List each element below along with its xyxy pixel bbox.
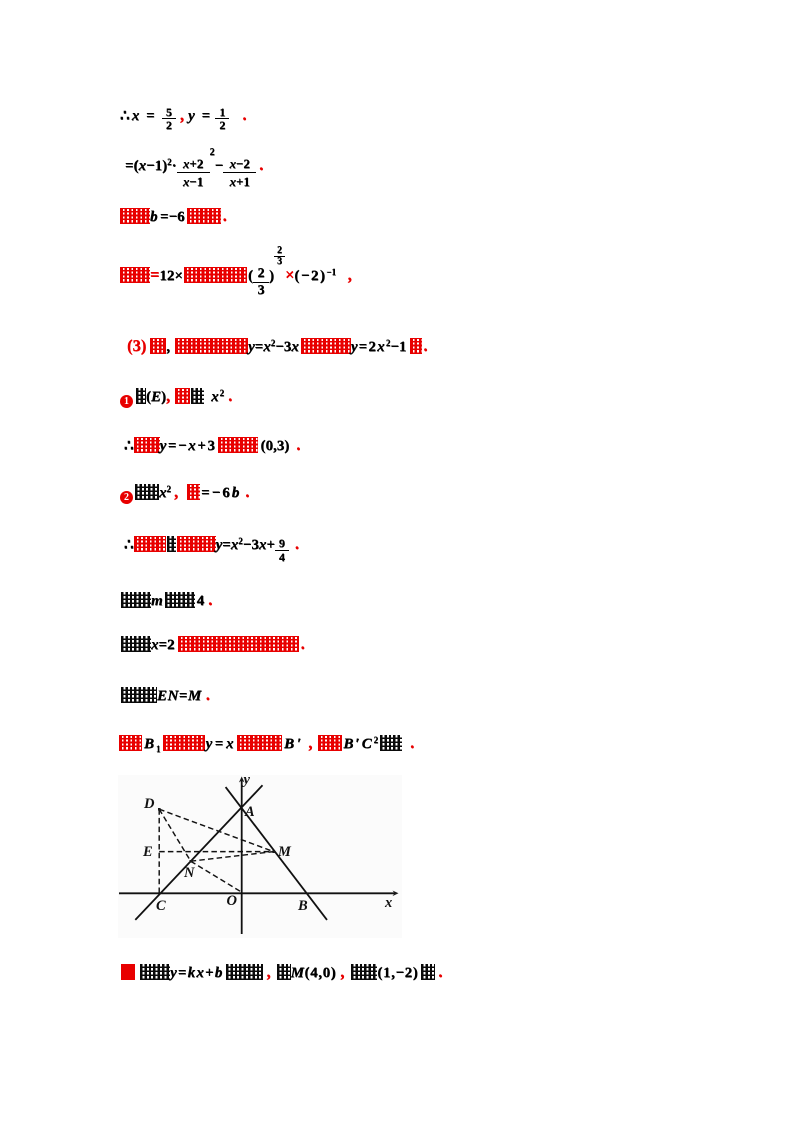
line 9 <box>124 532 299 564</box>
line 13 <box>119 731 414 759</box>
svg-text:D: D <box>143 796 155 812</box>
dashed D to M <box>159 809 273 851</box>
svg-text:O: O <box>227 893 238 909</box>
svg-text:y: y <box>242 775 251 788</box>
line 7 <box>124 435 300 456</box>
dashed D to C vertical <box>158 809 160 893</box>
diagram <box>118 775 402 938</box>
line 4: tall formula <box>120 251 352 299</box>
line 10 <box>121 590 212 611</box>
svg-text:x: x <box>384 895 392 911</box>
line 8 <box>120 480 249 504</box>
line 12 <box>121 685 210 706</box>
white panel <box>118 775 402 938</box>
line 6 <box>120 384 232 408</box>
line 2: tall formula <box>125 153 263 190</box>
labels <box>142 772 392 914</box>
y-axis <box>119 779 396 934</box>
svg-text:A: A <box>244 804 255 820</box>
svg-text:M: M <box>277 844 292 860</box>
line 3 <box>120 206 227 227</box>
line AC solid ascending <box>135 785 262 920</box>
line 5 <box>127 334 428 357</box>
dashed N to O <box>191 861 241 891</box>
axis arrowheads <box>239 777 245 783</box>
line 14 <box>121 962 442 983</box>
dashed E to M horizontal <box>159 851 273 853</box>
dashed N to M <box>191 852 274 862</box>
line AB solid descending <box>226 787 327 920</box>
dashed D to N <box>159 809 191 861</box>
line 11 <box>121 634 305 655</box>
point dots <box>158 808 275 863</box>
line 1: x = 5/2 , y = 1/2 . <box>120 105 246 131</box>
svg-text:E: E <box>142 844 153 860</box>
x-axis <box>119 892 396 894</box>
dashed lines <box>159 809 273 893</box>
svg-text:B: B <box>297 898 308 914</box>
svg-text:N: N <box>183 865 195 881</box>
svg-text:C: C <box>156 898 166 914</box>
